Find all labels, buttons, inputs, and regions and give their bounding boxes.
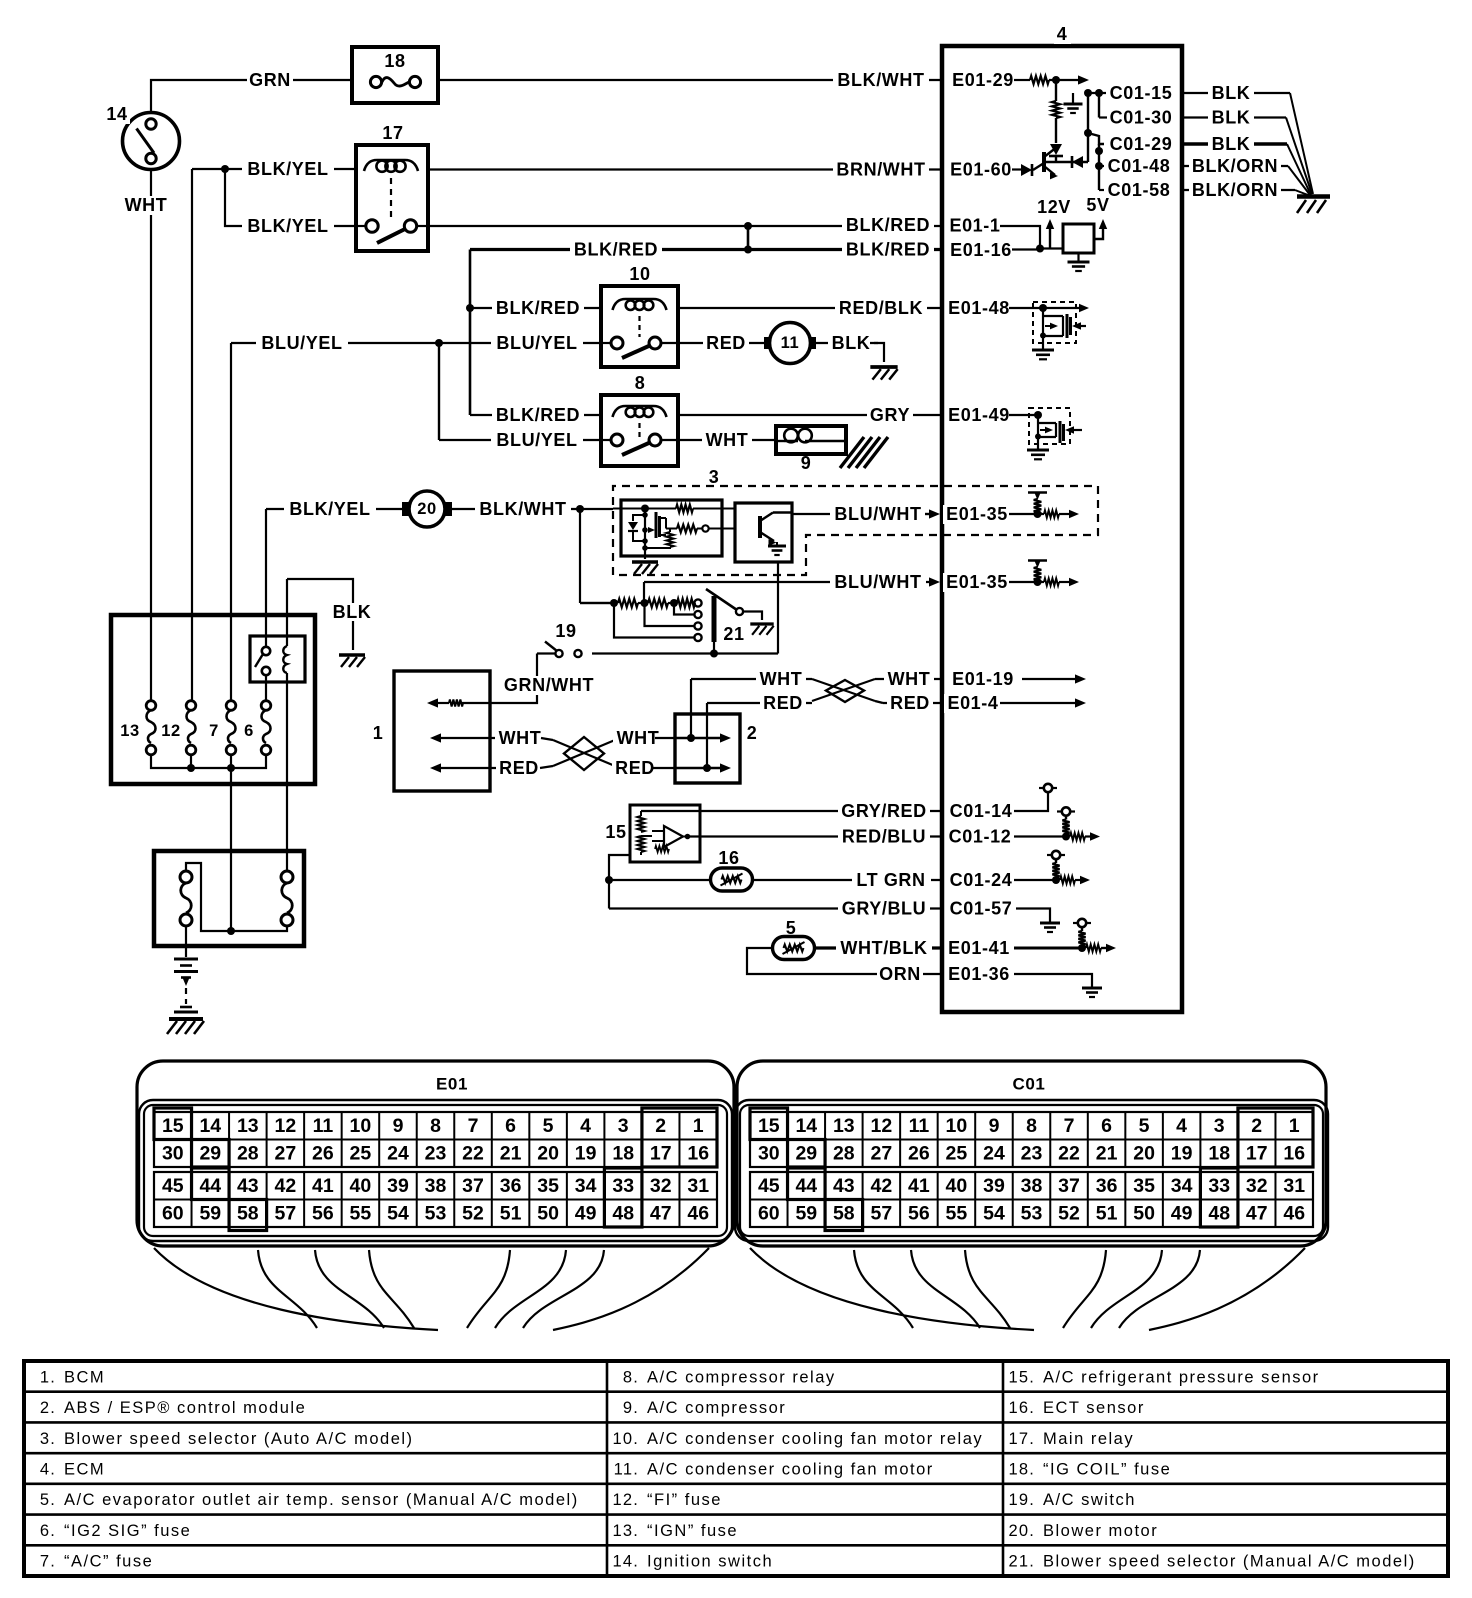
svg-text:E01-49: E01-49 (948, 405, 1010, 425)
svg-text:14: 14 (199, 1115, 221, 1137)
label 8 (632, 374, 649, 393)
wire WHT relay8 to compressor 9 (678, 439, 776, 441)
A/C fuse 7 (226, 701, 236, 711)
svg-text:7: 7 (1064, 1115, 1075, 1137)
svg-text:5: 5 (543, 1115, 554, 1137)
svg-text:16: 16 (1283, 1143, 1305, 1165)
wire RED/BLU sensor15 to ECM C01-12 (688, 835, 942, 837)
selector 21 wiper arm (706, 589, 737, 610)
compressor 9 case ground slashes (840, 437, 864, 468)
svg-text:GRY: GRY (870, 405, 910, 425)
svg-text:E01-60: E01-60 (950, 160, 1012, 180)
pin label E01-1 (946, 216, 1004, 235)
svg-text:E01-36: E01-36 (948, 964, 1010, 984)
wire BLK from C01-15 to ground (1182, 92, 1290, 94)
wire LT GRN to ECM C01-24 (752, 879, 942, 881)
ECM internal: diode D1 at E01-60 (1021, 164, 1032, 176)
pin label C01-30 (1107, 108, 1176, 127)
svg-text:GRY/BLU: GRY/BLU (842, 899, 927, 919)
label C01 (1010, 1075, 1049, 1093)
svg-text:60: 60 (162, 1203, 184, 1225)
battery negative plates (180, 1006, 192, 1009)
label WHT/BLK (836, 939, 932, 958)
svg-text:52: 52 (1058, 1203, 1080, 1225)
pin label E01-60 (947, 160, 1016, 179)
wire GRY/BLU to ECM C01-57 (609, 907, 942, 909)
relay 10 box (601, 286, 678, 367)
svg-text:RED: RED (615, 758, 655, 778)
svg-text:BLK/WHT: BLK/WHT (837, 70, 924, 90)
svg-text:18: 18 (384, 51, 405, 71)
svg-text:10: 10 (629, 264, 650, 284)
svg-text:23: 23 (1021, 1143, 1043, 1165)
label WHT BCM (495, 729, 545, 748)
wire WHT ABS to crossover 2 (691, 678, 812, 680)
connector harness wires (750, 1248, 1034, 1330)
svg-text:33: 33 (1208, 1175, 1230, 1197)
selector transistor Q2 (758, 516, 762, 538)
svg-text:“IG2 SIG” fuse: “IG2 SIG” fuse (64, 1522, 191, 1540)
svg-text:A/C compressor relay: A/C compressor relay (647, 1368, 836, 1386)
label BLK/WHT row I (475, 500, 571, 519)
svg-text:46: 46 (687, 1203, 709, 1225)
svg-text:42: 42 (275, 1175, 297, 1197)
svg-text:8: 8 (635, 373, 646, 393)
svg-text:5: 5 (786, 918, 797, 938)
selector 3 control module box (621, 500, 722, 556)
svg-text:41: 41 (312, 1175, 334, 1197)
svg-text:C01-29: C01-29 (1110, 134, 1173, 154)
svg-text:8.: 8. (623, 1368, 639, 1386)
svg-text:21.: 21. (1008, 1553, 1035, 1571)
svg-text:1.: 1. (40, 1368, 56, 1386)
svg-text:BLK: BLK (1212, 83, 1251, 103)
pin tick C01-29 (1181, 137, 1184, 152)
A/C compressor 9 box (776, 426, 846, 454)
svg-text:18.: 18. (1008, 1461, 1035, 1479)
svg-text:GRN/WHT: GRN/WHT (504, 675, 594, 695)
wire BLK/ORN from C01-48 to ground (1182, 165, 1288, 167)
pin tick E01-35 J (941, 507, 944, 522)
pin label E01-29 (949, 71, 1018, 90)
selector module hybrid IC mosfet (644, 509, 646, 549)
label BLK/YEL row I (284, 500, 376, 519)
pin tick E01-19 (941, 672, 944, 687)
svg-text:10: 10 (350, 1115, 372, 1137)
svg-text:ECT sensor: ECT sensor (1043, 1399, 1145, 1417)
chassis ground battery (169, 1017, 203, 1021)
svg-text:55: 55 (350, 1203, 372, 1225)
vertical BLK/YEL to fuse box relay (265, 509, 267, 647)
vertical BLU/YEL to fuse 7 (230, 343, 232, 701)
vertical RED inside ABS (706, 703, 708, 768)
label BLK/WHT row A (833, 71, 929, 90)
svg-text:Ignition switch: Ignition switch (647, 1553, 773, 1571)
ECM box U4 (component 4) (942, 46, 1182, 1012)
svg-text:15: 15 (605, 822, 626, 842)
svg-text:Blower motor: Blower motor (1043, 1522, 1158, 1540)
label 17 (379, 124, 406, 143)
ECM internal E01-60 wire to diode (1012, 168, 1021, 170)
wire BLK/YEL row to main relay coil (192, 168, 356, 170)
label WHT row H (702, 431, 752, 450)
pin label E01-41 (945, 939, 1014, 958)
svg-text:57: 57 (275, 1203, 297, 1225)
main relay 17 box (356, 145, 428, 251)
pin tick E01-36 (941, 967, 944, 982)
label RED upper right (887, 694, 933, 713)
label BLU/YEL row F mid (491, 334, 583, 353)
ignition switch 14 (123, 113, 180, 170)
wire BLK/RED to ECM E01-16 (thick) (470, 248, 942, 251)
svg-text:WHT: WHT (760, 669, 803, 689)
svg-text:BLK: BLK (333, 602, 372, 622)
ECM internal E01-48 MOSFET (1042, 308, 1044, 336)
pin label C01-57 (947, 899, 1016, 918)
ground inside ECM near C01-15 (1072, 93, 1074, 103)
svg-text:E01-35: E01-35 (946, 572, 1008, 592)
twisted pair crossover BCM-ABS (541, 738, 553, 740)
svg-text:E01: E01 (436, 1075, 468, 1094)
chassis ground for motor 11 (870, 365, 897, 369)
wire GRN/WHT switch19 to BCM (537, 652, 555, 654)
svg-text:BLU/YEL: BLU/YEL (496, 430, 577, 450)
FI fuse 12 (186, 701, 196, 711)
ECM internal regulator input line (1040, 247, 1063, 249)
svg-text:BLK/YEL: BLK/YEL (247, 216, 328, 236)
svg-text:3.: 3. (40, 1430, 56, 1448)
pin label E01-36 (945, 965, 1014, 984)
svg-text:29: 29 (199, 1143, 221, 1165)
connector E01 outer shell (137, 1061, 734, 1246)
pin label C01-14 (947, 802, 1016, 821)
svg-text:17.: 17. (1008, 1430, 1035, 1448)
IGN fuse 13 (146, 701, 156, 711)
svg-text:ECM: ECM (64, 1461, 105, 1479)
svg-text:RED: RED (890, 693, 930, 713)
fusible link right (281, 871, 293, 883)
svg-text:19: 19 (575, 1143, 597, 1165)
arrow into E01-35 row J (925, 513, 931, 515)
label RED (703, 334, 749, 353)
fuse 18 element (370, 76, 381, 87)
svg-text:38: 38 (425, 1175, 447, 1197)
svg-text:48: 48 (1208, 1203, 1230, 1225)
connector harness wires (154, 1248, 438, 1330)
svg-text:42: 42 (871, 1175, 893, 1197)
relay 10 switch (601, 342, 611, 344)
label WHT mid (613, 729, 663, 748)
main relay 17 dashed link (390, 178, 392, 221)
wire BLK/YEL row to main relay switch (238, 225, 356, 227)
relay 8 dashed link (638, 423, 640, 437)
pin tick E01-29 (941, 73, 944, 88)
svg-text:C01-48: C01-48 (1108, 156, 1171, 176)
selector module pulldown resistor (669, 529, 671, 533)
ECM internal E01-49 driver ground (1037, 437, 1039, 449)
main relay 17 coil (364, 160, 418, 171)
svg-text:1: 1 (693, 1115, 704, 1137)
wire BLK/ORN from C01-58 to ground (1182, 189, 1295, 191)
svg-text:45: 45 (162, 1175, 184, 1197)
svg-text:8: 8 (1026, 1115, 1037, 1137)
blower speed selector 3 dashed outline (auto model) (613, 486, 1098, 575)
svg-text:41: 41 (908, 1175, 930, 1197)
svg-text:48: 48 (612, 1203, 634, 1225)
pin label C01-15 (1107, 84, 1176, 103)
svg-text:46: 46 (1283, 1203, 1305, 1225)
svg-text:1: 1 (373, 723, 384, 743)
wire WHT to ABS module (655, 737, 675, 739)
selector 21 wiper bar (712, 596, 717, 642)
svg-text:11: 11 (781, 334, 800, 352)
junction BLK/RED rows (747, 226, 750, 250)
twisted pair crossover ABS-ECM (812, 679, 875, 701)
label 10 (626, 265, 653, 284)
label E01 (433, 1075, 472, 1093)
svg-text:54: 54 (387, 1203, 409, 1225)
ECM internal 12V arrow (1049, 224, 1051, 249)
pin tick E01-16 (941, 242, 944, 257)
label BLU/WHT row K (830, 573, 926, 592)
pin tick E01-48 (941, 301, 944, 316)
ECT sensor 16 (711, 868, 753, 891)
A/C condenser cooling fan motor 11 (764, 337, 771, 349)
wire BLK/RED to relay8 coil (470, 414, 601, 416)
pin tick E01-35 K (941, 575, 944, 590)
svg-text:WHT: WHT (888, 669, 931, 689)
vertical from row K to resistor chain tap (643, 582, 645, 603)
svg-text:BLU/WHT: BLU/WHT (834, 572, 921, 592)
BCM RED arrow (430, 763, 441, 772)
svg-text:RED/BLU: RED/BLU (842, 827, 926, 847)
svg-text:BLK/RED: BLK/RED (574, 240, 658, 260)
internal relay switch (262, 647, 270, 655)
ECM internal E01-35 row J network (1028, 491, 1047, 493)
svg-text:26: 26 (312, 1143, 334, 1165)
svg-text:43: 43 (237, 1175, 259, 1197)
ABS internal WHT arrow (675, 737, 722, 739)
svg-text:47: 47 (650, 1203, 672, 1225)
svg-text:49: 49 (575, 1203, 597, 1225)
svg-text:33: 33 (612, 1175, 634, 1197)
pin tick C01-57 (941, 901, 944, 916)
svg-text:44: 44 (795, 1175, 817, 1197)
svg-text:“FI” fuse: “FI” fuse (647, 1491, 722, 1509)
svg-text:WHT: WHT (499, 728, 542, 748)
selector transistor output down-wire (777, 562, 779, 654)
connector C01 outer shell (737, 1061, 1326, 1246)
chassis ground BLK (339, 653, 365, 657)
svg-text:13: 13 (237, 1115, 259, 1137)
svg-text:32: 32 (1246, 1175, 1268, 1197)
svg-text:12V: 12V (1037, 197, 1071, 217)
wire BLK from C01-29 to ground (thick) (1182, 142, 1287, 145)
svg-text:16: 16 (687, 1143, 709, 1165)
ECM internal E01-16 to regulator (1012, 248, 1040, 250)
svg-text:35: 35 (537, 1175, 559, 1197)
pin tick E01-49 (941, 408, 944, 423)
sensor 15 internals (640, 811, 642, 816)
svg-text:15: 15 (758, 1115, 780, 1137)
pin label E01-49 (945, 406, 1014, 425)
ECM internal: E01-29 series resistor and arrow (1014, 79, 1030, 81)
wire BLK motor11 to ground (816, 342, 878, 344)
connector E01 keyed cells (154, 1108, 192, 1140)
relay 8 box (601, 395, 678, 466)
label LT GRN (852, 871, 931, 890)
ECM internal: pull-down chain resistor+diode from E01-29 node (1055, 80, 1057, 101)
ECM internal C01-12 network (1014, 835, 1066, 837)
svg-text:E01-16: E01-16 (950, 240, 1012, 260)
label 14 (103, 105, 130, 124)
svg-text:BLK/RED: BLK/RED (846, 240, 930, 260)
pin tick E01-41 (941, 941, 944, 956)
svg-text:36: 36 (1096, 1175, 1118, 1197)
selector 21 common to switch row (713, 642, 715, 654)
svg-text:20: 20 (537, 1143, 559, 1165)
svg-text:5.: 5. (40, 1491, 56, 1509)
label RED/BLK (835, 299, 927, 318)
pin label E01-4 (944, 694, 1002, 713)
wire RED to ABS module (652, 767, 675, 769)
svg-text:1: 1 (1289, 1115, 1300, 1137)
svg-text:6: 6 (244, 722, 254, 740)
svg-text:20.: 20. (1008, 1522, 1035, 1540)
pin tick C01-48 (1181, 159, 1184, 174)
svg-text:E01-19: E01-19 (952, 669, 1014, 689)
ECM internal: vertical net to C01-15 (1087, 93, 1089, 162)
ECM internal E01-41 network (1014, 947, 1082, 950)
A/C refrigerant pressure sensor 15 box (630, 805, 700, 862)
svg-text:C01: C01 (1013, 1075, 1046, 1094)
svg-text:30: 30 (758, 1143, 780, 1165)
label BLK/RED row D mid (570, 240, 662, 259)
svg-text:7.: 7. (40, 1553, 56, 1571)
svg-text:C01-15: C01-15 (1110, 83, 1173, 103)
pin label E01-35 row K (943, 573, 1012, 592)
svg-text:34: 34 (575, 1175, 597, 1197)
ECM internal E01-36 ground (1014, 974, 1092, 987)
svg-text:WHT: WHT (706, 430, 749, 450)
svg-text:28: 28 (833, 1143, 855, 1165)
svg-text:6.: 6. (40, 1522, 56, 1540)
svg-text:16.: 16. (1008, 1399, 1035, 1417)
svg-text:36: 36 (500, 1175, 522, 1197)
svg-text:BLK/YEL: BLK/YEL (247, 159, 328, 179)
wire ORN sensor5 to ECM E01-36 (747, 948, 873, 974)
svg-text:11: 11 (909, 1115, 930, 1137)
svg-text:BLK/RED: BLK/RED (496, 298, 580, 318)
svg-text:59: 59 (199, 1203, 221, 1225)
svg-text:21: 21 (1096, 1143, 1118, 1165)
ECM internal voltage regulator box (1063, 224, 1094, 253)
vertical net C01-29/C01-48/C01-58 (1098, 144, 1100, 190)
label 18 (381, 52, 408, 71)
svg-text:21: 21 (500, 1143, 522, 1165)
relay 10 dashed link (638, 316, 640, 337)
pin tick E01-60 (941, 162, 944, 177)
svg-text:9: 9 (393, 1115, 404, 1137)
svg-text:47: 47 (1246, 1203, 1268, 1225)
svg-text:30: 30 (162, 1143, 184, 1165)
svg-text:38: 38 (1021, 1175, 1043, 1197)
wire RED/BLK relay10 to ECM E01-48 (678, 307, 942, 309)
svg-text:51: 51 (1096, 1203, 1118, 1225)
ABS/ESP control module box 2 (675, 714, 740, 783)
connector E01 pin grid (154, 1112, 717, 1167)
svg-text:RED: RED (499, 758, 539, 778)
ECM internal C01-57 ground (1016, 909, 1050, 923)
connector C01 pin grid (750, 1112, 1313, 1167)
junction vertical BLK/YEL (225, 169, 238, 226)
svg-text:58: 58 (237, 1203, 259, 1225)
vertical WHT inside ABS (690, 679, 692, 738)
svg-text:BLK/ORN: BLK/ORN (1192, 156, 1278, 176)
selector 21 arm ground (743, 612, 762, 621)
ECM internal E01-48 pass-through arrow (1009, 307, 1082, 309)
relay 8 coil (613, 406, 667, 417)
pin tick C01-12 (941, 829, 944, 844)
svg-text:BLU/WHT: BLU/WHT (834, 504, 921, 524)
sensor 15 ground-side wiring (609, 855, 630, 909)
svg-text:Blower speed selector (Manual: Blower speed selector (Manual A/C model) (1043, 1553, 1416, 1571)
ECM internal regulator ground (1077, 253, 1079, 261)
label BLU/WHT row J (830, 505, 926, 524)
selector module output resistor (666, 528, 677, 530)
svg-text:ABS / ESP® control module: ABS / ESP® control module (64, 1399, 306, 1417)
svg-text:C01-30: C01-30 (1110, 108, 1173, 128)
svg-text:8: 8 (430, 1115, 441, 1137)
svg-text:25: 25 (350, 1143, 372, 1165)
vertical feed below fuse box right (286, 673, 288, 851)
svg-text:20: 20 (1133, 1143, 1155, 1165)
wire WHT/BLK sensor5 to ECM E01-41 (thick) (814, 946, 942, 949)
svg-text:16: 16 (718, 848, 739, 868)
svg-text:56: 56 (312, 1203, 334, 1225)
svg-text:4: 4 (1057, 24, 1068, 44)
fusible link left (180, 871, 192, 883)
svg-text:20: 20 (417, 500, 437, 518)
svg-text:34: 34 (1171, 1175, 1193, 1197)
label WHT (121, 196, 171, 215)
label BLK/RED row C (842, 216, 934, 235)
svg-text:53: 53 (1021, 1203, 1043, 1225)
svg-text:31: 31 (687, 1175, 709, 1197)
svg-text:BLU/YEL: BLU/YEL (261, 333, 342, 353)
wire BRN/WHT relay17 to ECM E01-60 (428, 168, 942, 170)
svg-text:BLK/RED: BLK/RED (496, 405, 580, 425)
svg-text:21: 21 (723, 624, 744, 644)
label GRY/RED (838, 802, 930, 821)
svg-text:39: 39 (387, 1175, 409, 1197)
connector E01 inner shell (139, 1100, 732, 1241)
svg-text:6: 6 (505, 1115, 516, 1137)
svg-text:12: 12 (275, 1115, 297, 1137)
svg-text:E01-35: E01-35 (946, 504, 1008, 524)
svg-text:14: 14 (106, 104, 127, 124)
ABS internal RED arrow (675, 767, 722, 769)
dashed battery link (185, 988, 187, 1004)
pin tick E01-1 (941, 219, 944, 234)
svg-text:BCM: BCM (64, 1368, 105, 1386)
node dot to C01-30 (1095, 89, 1103, 97)
svg-text:BLK: BLK (1212, 134, 1251, 154)
wire selector common row (582, 652, 778, 654)
arrow into E01-35 row K (929, 577, 940, 586)
wire BLK to ground (287, 579, 353, 604)
svg-text:Blower speed selector (Auto A/: Blower speed selector (Auto A/C model) (64, 1430, 414, 1448)
